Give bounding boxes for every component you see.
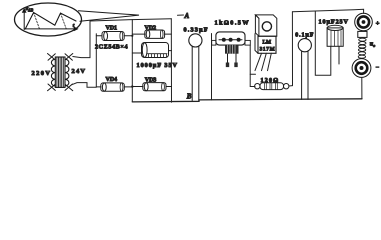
transformer primary winding xyxy=(51,59,55,86)
diode VD4 xyxy=(96,83,132,91)
diode VD2 xyxy=(132,30,171,38)
svg-text:0.1µF: 0.1µF xyxy=(295,33,313,39)
wire output top rail xyxy=(292,9,363,13)
capacitor C1 1000uF cylinder xyxy=(132,43,171,58)
wire pot left tab to ground rail xyxy=(211,34,213,100)
svg-text:−: − xyxy=(376,65,380,71)
svg-text:VD1: VD1 xyxy=(106,25,118,31)
capacitor C4 10uF cylinder xyxy=(327,25,343,64)
resistor R1 120 ohm xyxy=(255,83,289,90)
wire bottom rail xyxy=(132,99,362,102)
junction dot VD1-VD2 xyxy=(131,35,133,37)
transformer secondary lead crossing top xyxy=(65,54,73,61)
svg-text:317M: 317M xyxy=(260,46,275,52)
regulator U1 LM317M body xyxy=(255,34,276,54)
svg-text:0.33µF: 0.33µF xyxy=(184,26,208,33)
transformer T1 core xyxy=(55,57,65,87)
waveform vertical axis xyxy=(23,9,26,30)
wire secondary top to top rail xyxy=(73,21,90,58)
wire top rail to bridge xyxy=(90,19,171,21)
svg-text:uo: uo xyxy=(370,42,375,49)
wire bridge left vertical xyxy=(95,34,97,87)
waveform horizontal axis xyxy=(24,27,77,30)
svg-text:220V: 220V xyxy=(32,70,51,77)
transformer primary lead crossing top xyxy=(48,54,56,61)
waveform callout ellipse xyxy=(15,3,82,36)
binding post threaded shank xyxy=(358,38,366,58)
junction dot VD4-VD3 xyxy=(131,85,133,87)
binding post nut xyxy=(358,31,367,37)
svg-text:VD3: VD3 xyxy=(145,78,157,84)
transformer primary lead crossing bottom xyxy=(48,84,56,91)
wire pot right tab to adj node xyxy=(250,45,255,86)
binding post plus knob xyxy=(355,13,373,31)
svg-text:10µF25V: 10µF25V xyxy=(319,19,349,26)
svg-text:24V: 24V xyxy=(72,68,86,75)
svg-text:VD4: VD4 xyxy=(106,77,118,83)
waveform dashed fall 2 xyxy=(61,13,67,29)
svg-text:A: A xyxy=(184,12,190,20)
transformer secondary winding xyxy=(65,59,69,86)
transformer secondary lead crossing bottom xyxy=(65,84,73,91)
wire secondary bottom to bridge xyxy=(72,83,97,88)
wire 10uF branch xyxy=(315,11,331,75)
svg-text:1kΩ0.5W: 1kΩ0.5W xyxy=(215,20,250,27)
svg-text:LM: LM xyxy=(263,40,272,46)
wire bridge right vertical xyxy=(170,19,172,102)
callout pointer wedge xyxy=(79,11,140,21)
wire bridge mid vertical xyxy=(131,20,133,102)
wire output vertical xyxy=(291,12,293,86)
wire adj leg link xyxy=(250,73,255,75)
diode VD1 xyxy=(96,32,132,41)
wire resistor right to output vertical xyxy=(289,85,293,87)
capacitor C3 0.1uF disc xyxy=(298,39,311,100)
regulator U1 LM317M tab xyxy=(255,15,276,36)
waveform ripple trace xyxy=(25,13,76,29)
potentiometer RP body xyxy=(212,32,251,67)
binding post minus knob xyxy=(352,59,371,78)
waveform dashed fall 1 xyxy=(34,13,40,29)
regulator legs xyxy=(255,53,271,70)
diode VD3 xyxy=(132,83,171,91)
svg-text:uAB: uAB xyxy=(26,6,34,12)
capacitor C2 0.33uF disc xyxy=(189,34,202,101)
svg-text:VD2: VD2 xyxy=(145,26,157,32)
svg-text:B: B xyxy=(186,93,192,101)
svg-text:+: + xyxy=(376,20,380,27)
svg-text:2CZ54B×4: 2CZ54B×4 xyxy=(95,44,128,50)
node A stub xyxy=(178,14,184,16)
svg-text:1000µF 35V: 1000µF 35V xyxy=(137,62,178,69)
wire minus post to bottom rail xyxy=(361,78,363,99)
